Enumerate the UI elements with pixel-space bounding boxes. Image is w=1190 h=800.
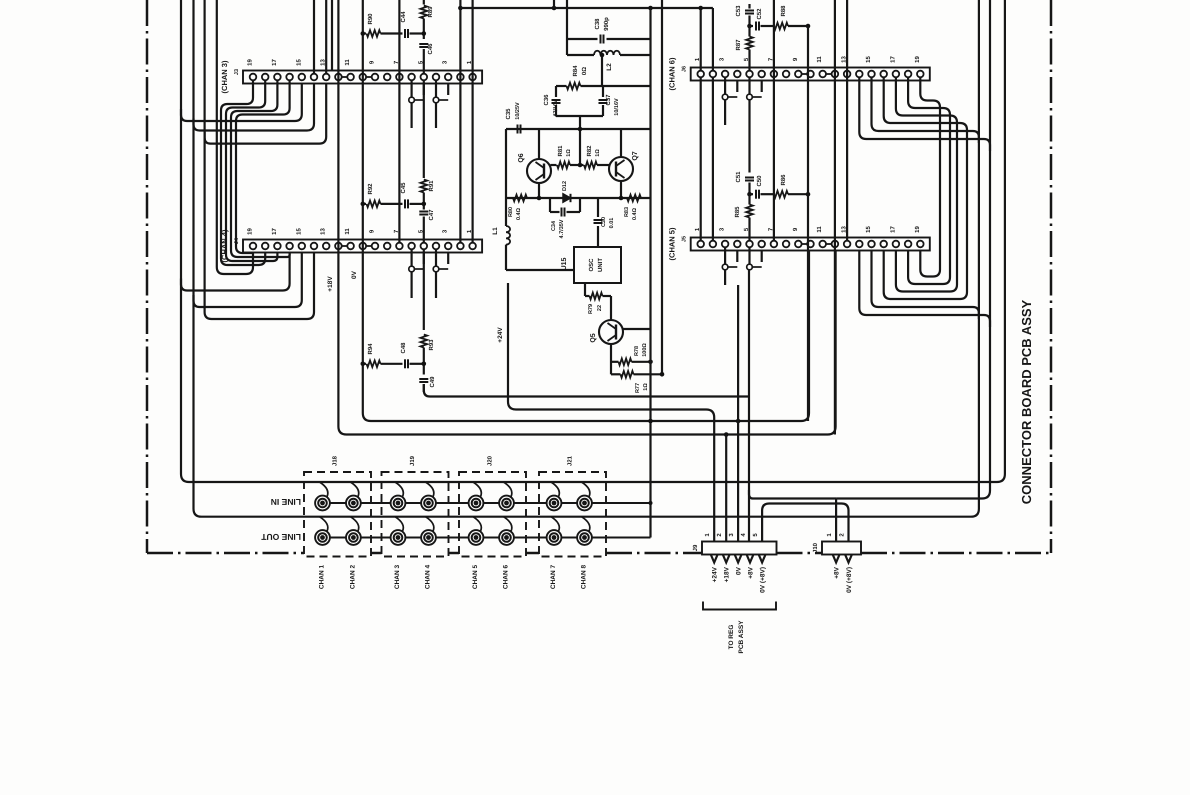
svg-text:15: 15: [295, 228, 302, 235]
svg-text:TO REG: TO REG: [728, 625, 735, 650]
svg-text:10/25V: 10/25V: [515, 102, 521, 120]
svg-text:R88: R88: [780, 5, 787, 17]
svg-text:C35: C35: [505, 108, 512, 120]
svg-text:Q5: Q5: [590, 333, 597, 342]
svg-text:(CHAN 5): (CHAN 5): [668, 227, 677, 260]
svg-text:R80: R80: [508, 207, 514, 217]
svg-text:R86: R86: [780, 174, 787, 186]
svg-text:0.01: 0.01: [609, 218, 615, 229]
svg-text:+8V: +8V: [834, 566, 841, 578]
svg-text:15: 15: [295, 59, 302, 66]
svg-text:C44: C44: [400, 11, 407, 23]
svg-text:PCB ASSY: PCB ASSY: [738, 620, 745, 654]
svg-text:CHAN 7: CHAN 7: [550, 565, 557, 590]
svg-text:17: 17: [271, 228, 278, 235]
svg-text:(CHAN 3): (CHAN 3): [220, 60, 229, 93]
svg-text:CONNECTOR BOARD PCB ASSY: CONNECTOR BOARD PCB ASSY: [1019, 299, 1034, 504]
svg-text:19: 19: [247, 59, 254, 66]
svg-text:C48: C48: [400, 342, 407, 354]
svg-text:C36: C36: [543, 94, 550, 106]
svg-text:0.4Ω: 0.4Ω: [632, 207, 638, 220]
svg-text:10/16V: 10/16V: [614, 98, 620, 116]
svg-text:17: 17: [889, 56, 896, 63]
svg-text:R82: R82: [586, 145, 593, 157]
svg-text:R85: R85: [734, 206, 741, 218]
svg-text:R93: R93: [428, 339, 435, 351]
svg-text:17: 17: [271, 59, 278, 66]
svg-text:R78: R78: [634, 346, 640, 356]
svg-text:CHAN 5: CHAN 5: [472, 565, 479, 590]
svg-text:+8V: +8V: [748, 566, 755, 578]
svg-text:LINE IN: LINE IN: [271, 497, 301, 507]
svg-text:D12: D12: [562, 181, 568, 191]
svg-text:Q7: Q7: [632, 151, 639, 160]
svg-text:0V (+8V): 0V (+8V): [846, 567, 853, 593]
svg-text:J18: J18: [332, 455, 339, 466]
svg-text:1Ω: 1Ω: [566, 149, 572, 157]
svg-text:C52: C52: [756, 8, 763, 20]
svg-text:19: 19: [247, 228, 254, 235]
svg-text:R94: R94: [367, 343, 374, 355]
svg-text:C53: C53: [735, 5, 742, 17]
svg-text:R79: R79: [588, 304, 594, 314]
svg-text:C38: C38: [594, 18, 601, 30]
svg-text:R83: R83: [624, 207, 630, 217]
svg-text:19: 19: [914, 226, 921, 233]
svg-text:4.7/35V: 4.7/35V: [559, 219, 565, 238]
svg-text:CHAN 2: CHAN 2: [349, 565, 356, 590]
svg-text:15: 15: [865, 226, 872, 233]
svg-text:1Ω: 1Ω: [595, 149, 601, 157]
svg-text:0V: 0V: [736, 566, 743, 575]
svg-text:UNIT: UNIT: [597, 258, 604, 272]
svg-text:R81: R81: [557, 145, 564, 157]
svg-text:R89: R89: [427, 6, 434, 18]
svg-text:+18V: +18V: [724, 566, 731, 582]
svg-text:100Ω: 100Ω: [642, 343, 648, 357]
svg-text:J6: J6: [682, 66, 688, 72]
svg-text:11: 11: [816, 56, 823, 63]
svg-text:J20: J20: [487, 455, 494, 466]
svg-text:C46: C46: [427, 43, 434, 55]
svg-text:CHAN 3: CHAN 3: [394, 565, 401, 590]
svg-text:L1: L1: [492, 227, 499, 235]
svg-text:+24V: +24V: [497, 327, 504, 343]
svg-text:C49: C49: [429, 376, 436, 388]
svg-text:J10: J10: [812, 542, 819, 553]
svg-text:1Ω: 1Ω: [643, 383, 649, 391]
svg-text:J3: J3: [234, 69, 240, 75]
svg-text:C45: C45: [400, 182, 407, 194]
svg-text:C50: C50: [756, 175, 763, 187]
svg-text:0V: 0V: [351, 270, 358, 279]
svg-text:R91: R91: [428, 180, 435, 192]
svg-text:R90: R90: [367, 13, 374, 25]
svg-text:CHAN 6: CHAN 6: [503, 565, 510, 590]
svg-text:0V (+8V): 0V (+8V): [760, 567, 767, 593]
svg-text:J5: J5: [682, 236, 688, 242]
svg-text:J9: J9: [692, 544, 699, 551]
svg-text:R92: R92: [367, 183, 374, 195]
svg-text:0Ω: 0Ω: [581, 67, 588, 75]
svg-text:U15: U15: [561, 257, 568, 270]
svg-text:LINE OUT: LINE OUT: [261, 532, 301, 542]
svg-text:0.4Ω: 0.4Ω: [516, 207, 522, 220]
svg-text:11: 11: [816, 226, 823, 233]
svg-text:(CHAN 6): (CHAN 6): [668, 57, 677, 90]
svg-text:C34: C34: [551, 220, 557, 231]
svg-text:R77: R77: [635, 383, 641, 393]
svg-text:Q6: Q6: [518, 153, 525, 162]
svg-text:L2: L2: [606, 63, 613, 71]
svg-text:CHAN 8: CHAN 8: [581, 565, 588, 590]
svg-text:15: 15: [865, 56, 872, 63]
svg-text:11: 11: [344, 228, 351, 235]
svg-text:R84: R84: [572, 65, 579, 77]
svg-text:C37: C37: [605, 94, 612, 106]
svg-text:+24V: +24V: [712, 566, 719, 582]
svg-text:C51: C51: [735, 171, 742, 183]
svg-text:17: 17: [889, 226, 896, 233]
svg-text:+18V: +18V: [327, 276, 334, 292]
svg-text:CHAN 4: CHAN 4: [425, 565, 432, 590]
svg-text:19: 19: [914, 56, 921, 63]
svg-text:J21: J21: [567, 455, 574, 466]
svg-text:C47: C47: [428, 209, 435, 221]
svg-text:13: 13: [320, 228, 327, 235]
svg-text:990p: 990p: [603, 17, 610, 31]
svg-text:22: 22: [597, 305, 603, 311]
svg-text:47/16V: 47/16V: [553, 99, 559, 117]
svg-text:R87: R87: [735, 39, 742, 51]
svg-text:11: 11: [344, 59, 351, 66]
svg-text:OSC: OSC: [588, 258, 595, 272]
svg-text:J19: J19: [409, 455, 416, 466]
svg-text:C30: C30: [601, 217, 607, 227]
svg-text:CHAN 1: CHAN 1: [319, 565, 326, 590]
